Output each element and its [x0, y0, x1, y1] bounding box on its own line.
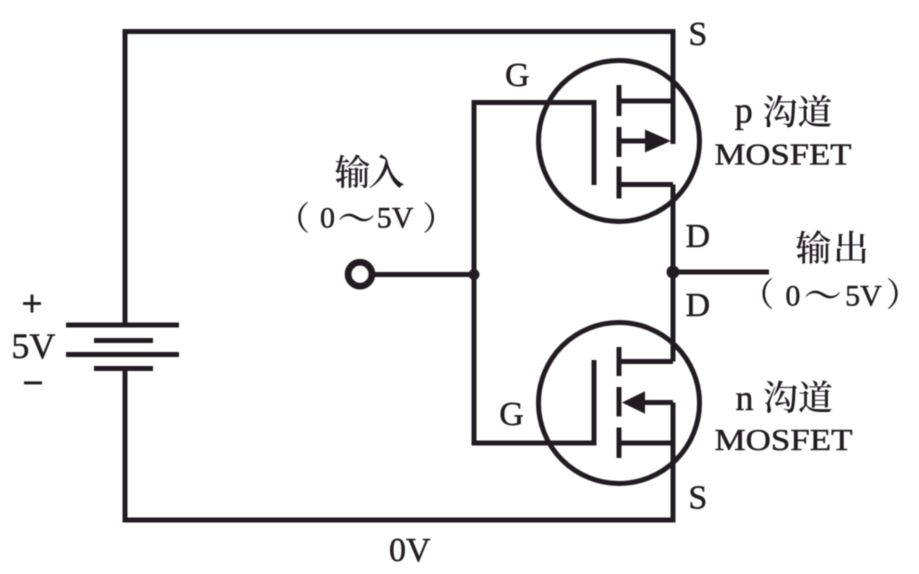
svg-text:0: 0	[320, 202, 335, 235]
svg-text:5V: 5V	[11, 326, 55, 366]
svg-text:5V: 5V	[377, 202, 414, 235]
svg-text:5V: 5V	[845, 280, 882, 313]
svg-text:D: D	[686, 218, 711, 255]
svg-text:MOSFET: MOSFET	[715, 422, 853, 457]
svg-text:S: S	[688, 16, 707, 53]
svg-text:G: G	[499, 396, 524, 433]
svg-text:MOSFET: MOSFET	[715, 137, 852, 172]
svg-text:n: n	[736, 378, 754, 418]
svg-text:p: p	[735, 91, 753, 131]
svg-text:S: S	[688, 480, 707, 517]
svg-text:0V: 0V	[389, 532, 431, 569]
svg-text:D: D	[686, 287, 711, 324]
svg-text:0: 0	[785, 280, 800, 313]
svg-text:G: G	[505, 57, 530, 94]
